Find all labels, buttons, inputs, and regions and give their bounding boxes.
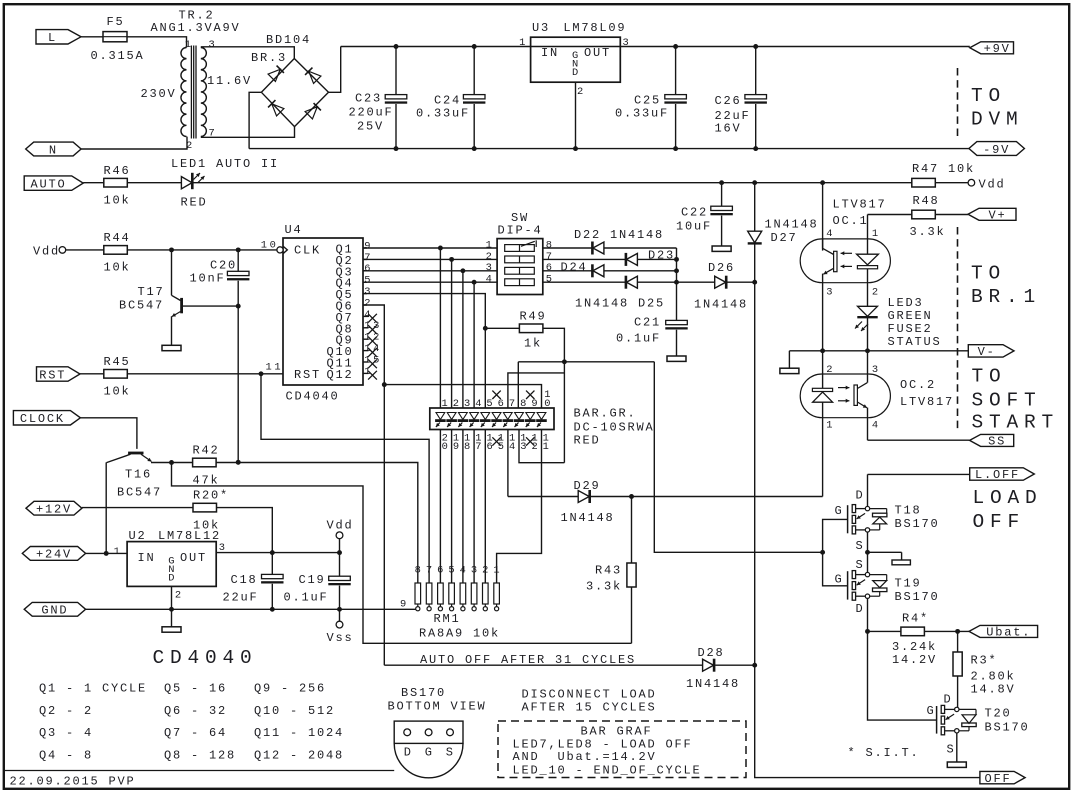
- svg-text:START: START: [972, 412, 1060, 434]
- svg-text:2: 2: [175, 590, 184, 602]
- svg-text:1: 1: [519, 37, 528, 49]
- wire: [637, 281, 676, 283]
- svg-text:6: 6: [364, 263, 373, 275]
- svg-text:BS170: BS170: [401, 686, 446, 700]
- capacitor C24: [416, 44, 485, 151]
- diode D24: [561, 261, 604, 278]
- svg-text:0.33uF: 0.33uF: [615, 107, 669, 121]
- svg-text:9: 9: [531, 398, 540, 410]
- ground: [947, 762, 966, 767]
- label TO BR.1: [971, 263, 1041, 309]
- svg-text:* S.I.T.: * S.I.T.: [848, 746, 920, 760]
- ground: [667, 356, 686, 361]
- voltage regulator U3 LM78L09: [519, 21, 631, 98]
- svg-text:AFTER 15 CYCLES: AFTER 15 CYCLES: [522, 701, 657, 715]
- svg-text:D26: D26: [708, 261, 735, 275]
- svg-text:D23: D23: [648, 249, 675, 263]
- svg-text:Q8 - 128: Q8 - 128: [164, 748, 236, 762]
- svg-text:6: 6: [487, 441, 496, 453]
- svg-text:3: 3: [486, 262, 495, 274]
- svg-text:D22 1N4148: D22 1N4148: [574, 228, 664, 242]
- svg-text:2.80k: 2.80k: [971, 670, 1016, 684]
- svg-text:D27: D27: [771, 231, 798, 245]
- svg-text:3.3k: 3.3k: [586, 580, 622, 594]
- svg-text:3: 3: [364, 286, 373, 298]
- svg-text:6: 6: [546, 262, 555, 274]
- svg-text:CLK: CLK: [294, 244, 321, 258]
- svg-text:2: 2: [453, 398, 462, 410]
- svg-text:1: 1: [185, 39, 194, 51]
- svg-text:2: 2: [364, 297, 373, 309]
- svg-text:Q6 - 32: Q6 - 32: [164, 704, 227, 718]
- svg-text:S: S: [947, 743, 956, 757]
- svg-text:D29: D29: [574, 479, 601, 493]
- svg-text:0.315A: 0.315A: [91, 49, 145, 63]
- svg-text:7: 7: [364, 252, 373, 264]
- transistor T16 BC547: [107, 452, 172, 500]
- svg-text:TO: TO: [972, 366, 1007, 388]
- wire: [591, 494, 823, 499]
- wire pin3: [201, 47, 294, 59]
- svg-text:DIP-4: DIP-4: [497, 224, 542, 238]
- svg-text:RM1: RM1: [433, 612, 460, 626]
- wire col10 to RM1.1: [497, 430, 542, 584]
- wire: [83, 182, 104, 184]
- svg-text:IN: IN: [138, 551, 156, 565]
- svg-text:2: 2: [872, 286, 881, 298]
- svg-text:GREEN: GREEN: [888, 309, 933, 323]
- capacitor C26: [715, 44, 767, 151]
- svg-text:4: 4: [486, 274, 495, 286]
- voltage regulator U2 LM78L12: [114, 529, 228, 602]
- svg-text:8: 8: [546, 239, 555, 251]
- wire: [519, 430, 564, 463]
- svg-text:Ubat.: Ubat.: [986, 626, 1031, 640]
- svg-text:7: 7: [475, 441, 484, 453]
- svg-text:220uF: 220uF: [349, 106, 394, 120]
- svg-text:C19: C19: [298, 573, 325, 587]
- svg-text:TO: TO: [971, 85, 1006, 107]
- wire Q6 to bargraph: [384, 385, 541, 408]
- svg-text:OUT: OUT: [584, 46, 611, 60]
- label OC.2 LTV817: [900, 378, 954, 409]
- svg-text:RST: RST: [39, 368, 66, 382]
- svg-text:D: D: [404, 746, 413, 760]
- wire Q2: [363, 257, 497, 262]
- wire +9V rail: [341, 46, 970, 48]
- svg-text:U3: U3: [532, 21, 550, 35]
- svg-text:-9V: -9V: [983, 143, 1010, 157]
- wire: [169, 460, 193, 465]
- svg-text:D: D: [168, 573, 177, 585]
- svg-text:3.24k: 3.24k: [892, 640, 937, 654]
- svg-text:11.6V: 11.6V: [207, 74, 252, 88]
- wire: [104, 462, 109, 555]
- wire col4 down: [473, 430, 475, 584]
- svg-text:1: 1: [486, 239, 495, 251]
- diode D23: [626, 249, 675, 266]
- svg-text:1: 1: [442, 398, 451, 410]
- label S.I.T.: [848, 746, 920, 760]
- transformer TR.2 ANG1.3VA9V: [141, 9, 253, 153]
- svg-text:STATUS: STATUS: [888, 335, 942, 349]
- svg-text:14.8V: 14.8V: [971, 683, 1016, 697]
- svg-text:G: G: [835, 573, 844, 587]
- wire: [604, 270, 677, 272]
- svg-text:16V: 16V: [715, 122, 742, 136]
- label TO DVM: [971, 85, 1024, 131]
- svg-text:0: 0: [544, 398, 553, 410]
- svg-text:D: D: [856, 602, 865, 616]
- svg-text:+9V: +9V: [984, 42, 1011, 56]
- svg-text:N: N: [49, 143, 58, 157]
- wire RST to RM1.7: [261, 374, 429, 583]
- svg-text:FUSE2: FUSE2: [888, 322, 933, 336]
- svg-text:2: 2: [826, 364, 835, 376]
- svg-text:C20: C20: [210, 259, 237, 273]
- svg-text:BR.3: BR.3: [251, 51, 287, 65]
- svg-text:230V: 230V: [141, 87, 177, 101]
- svg-text:1N4148: 1N4148: [694, 298, 748, 312]
- wire: [485, 327, 519, 329]
- svg-text:S: S: [856, 558, 865, 572]
- label date: [10, 775, 136, 789]
- wire: [868, 214, 912, 216]
- wire Vdd rail: [192, 180, 912, 185]
- svg-text:3: 3: [209, 39, 218, 51]
- wire col1 down: [439, 430, 441, 584]
- label AUTO OFF: [420, 653, 636, 667]
- svg-text:3: 3: [464, 398, 473, 410]
- svg-text:BS170: BS170: [895, 590, 940, 604]
- resistor R43: [586, 563, 636, 594]
- wire: [80, 373, 104, 375]
- svg-text:U2: U2: [129, 529, 147, 543]
- label TO SOFT START: [972, 366, 1060, 434]
- svg-text:1k: 1k: [524, 337, 542, 351]
- wire: [127, 37, 187, 48]
- wire: [127, 182, 181, 184]
- wire Q6: [363, 305, 387, 665]
- wire: [957, 631, 959, 652]
- svg-text:DC-10SRWA: DC-10SRWA: [574, 421, 655, 435]
- wire: [631, 497, 633, 564]
- svg-text:CD4040: CD4040: [286, 390, 340, 404]
- svg-text:9: 9: [400, 599, 409, 611]
- bridge rectifier BR.3 BD104: [251, 33, 329, 127]
- svg-text:6: 6: [498, 398, 507, 410]
- svg-text:OUT: OUT: [180, 551, 207, 565]
- svg-text:1: 1: [543, 441, 552, 453]
- wire AUTO OFF: [384, 664, 702, 666]
- wire: [508, 496, 578, 498]
- svg-text:BD104: BD104: [266, 33, 311, 47]
- wire: [604, 247, 677, 249]
- svg-text:Vss: Vss: [327, 631, 354, 645]
- bargraph display BAR.GR. DC-10SRWA: [430, 389, 554, 453]
- diode D27: [748, 183, 819, 283]
- wire col7 to D29: [507, 430, 509, 497]
- svg-text:5: 5: [498, 441, 507, 453]
- svg-text:3: 3: [520, 441, 529, 453]
- wire: [956, 733, 958, 762]
- svg-text:Vdd: Vdd: [33, 245, 60, 259]
- svg-text:3.3k: 3.3k: [910, 225, 946, 239]
- label CD4040: [153, 647, 258, 669]
- diode D25: [575, 276, 665, 311]
- svg-text:LED_10 - END_OF_CYCLE: LED_10 - END_OF_CYCLE: [513, 764, 702, 778]
- svg-text:5: 5: [448, 565, 457, 577]
- signal flag OFF: [980, 771, 1025, 785]
- wire T18 gate: [820, 519, 847, 585]
- svg-text:9: 9: [364, 240, 373, 252]
- wire Q3: [363, 268, 497, 273]
- svg-text:G: G: [835, 504, 844, 518]
- wire RST: [127, 371, 283, 376]
- power flag +9V: [970, 42, 1014, 56]
- svg-text:D: D: [572, 67, 581, 79]
- wire bridge minus: [249, 92, 261, 148]
- capacitor C18: [222, 553, 283, 610]
- svg-text:BS170: BS170: [895, 517, 940, 531]
- signal flag L.OFF: [970, 468, 1035, 482]
- input connector L: [36, 30, 81, 45]
- resistor R46: [104, 164, 131, 208]
- svg-text:U4: U4: [285, 223, 303, 237]
- wire T16 to R43: [172, 463, 632, 644]
- resistor R47: [912, 162, 975, 187]
- svg-text:R47 10k: R47 10k: [912, 162, 975, 176]
- svg-text:R4*: R4*: [902, 612, 929, 626]
- label cycle table: [39, 682, 344, 763]
- input connector RST: [37, 367, 81, 383]
- svg-text:S: S: [856, 539, 865, 553]
- svg-text:AND Ubat.=14.2V: AND Ubat.=14.2V: [513, 750, 657, 764]
- svg-text:2: 2: [482, 565, 491, 577]
- svg-text:0.1uF: 0.1uF: [616, 332, 661, 346]
- svg-text:T16: T16: [125, 468, 152, 482]
- svg-text:Vdd: Vdd: [979, 178, 1006, 192]
- terminal Vss C19: [327, 609, 354, 645]
- wire: [637, 258, 676, 260]
- svg-text:G: G: [425, 746, 434, 760]
- svg-text:Q2 - 2: Q2 - 2: [39, 704, 93, 718]
- wire U3 gnd: [573, 82, 578, 151]
- ground: [162, 609, 181, 632]
- input connector AUTO: [24, 176, 83, 192]
- svg-text:Q10 - 512: Q10 - 512: [254, 704, 335, 718]
- terminal Vdd C19: [327, 519, 354, 553]
- svg-text:1: 1: [826, 420, 835, 432]
- svg-text:Q1 - 1 CYCLE: Q1 - 1 CYCLE: [39, 682, 147, 696]
- svg-text:R48: R48: [913, 194, 940, 208]
- svg-text:4: 4: [872, 420, 881, 432]
- svg-text:T17: T17: [138, 285, 165, 299]
- wire: [543, 247, 593, 249]
- wire: [865, 629, 901, 634]
- svg-text:IN: IN: [541, 46, 559, 60]
- title block line: [4, 770, 394, 772]
- svg-text:22uF: 22uF: [222, 591, 258, 605]
- wire to gates: [654, 362, 822, 553]
- capacitor C20: [189, 250, 249, 465]
- svg-text:9: 9: [453, 441, 462, 453]
- svg-text:C22: C22: [681, 206, 708, 220]
- diode D28: [686, 646, 740, 691]
- wire: [86, 552, 128, 554]
- svg-text:R44: R44: [104, 231, 131, 245]
- svg-text:8: 8: [415, 565, 424, 577]
- wire: [517, 362, 519, 408]
- svg-text:R3*: R3*: [971, 654, 998, 668]
- svg-text:RED: RED: [181, 196, 208, 210]
- svg-text:BC547: BC547: [119, 299, 164, 313]
- svg-text:25V: 25V: [357, 120, 384, 134]
- wire: [543, 281, 626, 283]
- wire R49 net: [518, 359, 654, 364]
- svg-text:RST: RST: [294, 368, 321, 382]
- svg-text:14.2V: 14.2V: [892, 653, 937, 667]
- wire: [715, 664, 755, 666]
- svg-text:DVM: DVM: [971, 109, 1024, 131]
- wire: [543, 270, 593, 272]
- svg-text:T20: T20: [985, 707, 1012, 721]
- wire: [631, 587, 633, 643]
- wire col3: [462, 271, 464, 408]
- signal flag Ubat: [969, 625, 1038, 639]
- svg-text:SS: SS: [988, 435, 1006, 449]
- svg-text:+12V: +12V: [36, 503, 72, 517]
- transistor T18 BS170: [835, 474, 940, 553]
- wire Q1: [363, 246, 497, 251]
- jumper stub: [892, 552, 910, 565]
- wire: [727, 281, 755, 283]
- LED LED1: [171, 157, 279, 210]
- diode D26: [694, 261, 748, 312]
- resistor R49: [519, 310, 546, 351]
- input connector N: [26, 142, 81, 157]
- svg-text:V-: V-: [978, 345, 996, 359]
- svg-text:CD4040: CD4040: [153, 647, 258, 669]
- svg-text:Q3 - 4: Q3 - 4: [39, 726, 93, 740]
- svg-text:10: 10: [261, 239, 279, 251]
- optocoupler OC.2 LTV817: [800, 351, 890, 497]
- wire col1: [439, 248, 441, 408]
- power flag -9V: [969, 142, 1025, 157]
- svg-text:D24: D24: [561, 261, 588, 275]
- svg-text:BC547: BC547: [117, 486, 162, 500]
- svg-text:C24: C24: [434, 94, 461, 108]
- wire: [81, 36, 103, 38]
- label SW DIP-4: [497, 211, 542, 238]
- resistor R3*: [953, 652, 1016, 697]
- svg-text:6: 6: [437, 565, 446, 577]
- svg-text:0.1uF: 0.1uF: [283, 591, 328, 605]
- svg-text:Q7 - 64: Q7 - 64: [164, 726, 227, 740]
- label BAR.GR.: [574, 407, 655, 448]
- svg-text:1: 1: [872, 228, 881, 240]
- svg-text:L.OFF: L.OFF: [975, 468, 1020, 482]
- svg-text:7: 7: [509, 398, 518, 410]
- svg-text:5: 5: [364, 275, 373, 287]
- svg-text:7: 7: [426, 565, 435, 577]
- BS170 bottom view drawing: [388, 686, 487, 778]
- wire col2: [451, 259, 453, 408]
- svg-text:1N4148: 1N4148: [765, 218, 819, 232]
- IC U4 CD4040: [261, 223, 382, 404]
- svg-text:F5: F5: [107, 15, 125, 29]
- resistor network RM1 RA8A9 10k: [400, 565, 502, 641]
- svg-text:5: 5: [546, 274, 555, 286]
- wire -9V rail: [249, 148, 969, 150]
- terminal Vdd: [968, 178, 1005, 192]
- svg-text:C21: C21: [634, 316, 661, 330]
- svg-text:2: 2: [531, 441, 540, 453]
- svg-text:0: 0: [442, 441, 451, 453]
- capacitor C25: [615, 44, 687, 151]
- svg-text:T19: T19: [895, 577, 922, 591]
- input connector +12V: [26, 501, 82, 516]
- svg-text:OC.2: OC.2: [900, 378, 936, 392]
- svg-text:10uF: 10uF: [676, 220, 712, 234]
- svg-text:SOFT: SOFT: [972, 389, 1042, 411]
- svg-text:7: 7: [546, 251, 555, 263]
- svg-text:3: 3: [872, 364, 881, 376]
- svg-text:D: D: [944, 693, 953, 707]
- svg-text:8: 8: [464, 441, 473, 453]
- svg-text:CLOCK: CLOCK: [20, 412, 65, 426]
- optocoupler OC.1 LTV817: [800, 183, 890, 351]
- label LED3 GREEN FUSE2 STATUS: [888, 296, 942, 349]
- svg-text:OFF: OFF: [973, 511, 1026, 533]
- svg-text:BAR GRAF: BAR GRAF: [581, 725, 653, 739]
- note box BAR GRAF: [498, 721, 746, 778]
- wire: [924, 629, 969, 634]
- ground: [162, 345, 181, 350]
- svg-text:1N4148: 1N4148: [686, 677, 740, 691]
- wire: [80, 418, 136, 449]
- resistor R45: [104, 355, 131, 399]
- terminal Vdd source: [33, 245, 66, 259]
- wire: [543, 328, 565, 362]
- svg-text:Q12 - 2048: Q12 - 2048: [254, 748, 344, 762]
- svg-text:3: 3: [471, 565, 480, 577]
- wire source node: [865, 550, 902, 555]
- wire Q4: [363, 280, 497, 285]
- capacitor C22: [676, 183, 733, 246]
- wire OFF: [755, 665, 980, 777]
- svg-text:LTV817: LTV817: [833, 198, 887, 212]
- svg-text:C26: C26: [715, 94, 742, 108]
- svg-text:D: D: [856, 489, 865, 503]
- svg-text:LED3: LED3: [888, 296, 924, 310]
- svg-text:R49: R49: [520, 310, 547, 324]
- wire SS: [868, 439, 970, 441]
- capacitor C23: [349, 44, 408, 151]
- svg-text:R42: R42: [193, 444, 220, 458]
- svg-text:R46: R46: [104, 164, 131, 178]
- svg-text:BAR.GR.: BAR.GR.: [574, 407, 637, 421]
- signal flag SS: [970, 434, 1014, 448]
- svg-text:10nF: 10nF: [189, 272, 225, 286]
- svg-text:BOTTOM VIEW: BOTTOM VIEW: [388, 700, 487, 714]
- svg-text:Q11 - 1024: Q11 - 1024: [254, 726, 344, 740]
- svg-text:22.09.2015 PVP: 22.09.2015 PVP: [10, 775, 136, 789]
- fuse F5: [91, 15, 145, 63]
- input connector GND: [24, 602, 85, 617]
- svg-text:OC.1: OC.1: [833, 214, 869, 228]
- svg-text:C23: C23: [355, 92, 382, 106]
